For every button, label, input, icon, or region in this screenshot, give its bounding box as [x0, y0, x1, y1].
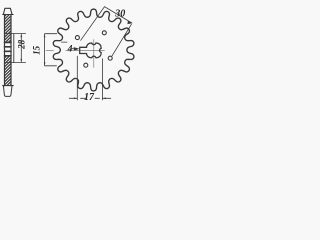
side view bore band lines — [5, 42, 12, 55]
hole top-left — [75, 36, 79, 40]
hole bottom-left — [84, 63, 88, 67]
dim 17 lines — [69, 97, 111, 99]
side view top base line — [3, 14, 14, 16]
dim 17 arrows — [74, 98, 106, 100]
dim 28 arrows — [21, 34, 23, 63]
dim 15 arrows — [44, 34, 46, 66]
centerline horizontal — [46, 49, 105, 51]
dim 15 ext lines — [45, 34, 57, 66]
side view hub collar — [13, 34, 15, 63]
side view top tooth cap — [3, 8, 12, 14]
dim 15 line — [44, 34, 46, 65]
svg-text:4: 4 — [67, 44, 73, 54]
dim 28 line — [20, 34, 22, 62]
spline bore — [80, 43, 101, 58]
leader to hole — [112, 24, 131, 56]
side view bottom base line — [3, 85, 14, 87]
dim 28 ext lines — [5, 34, 26, 63]
hole bottom-right — [108, 56, 112, 60]
leader 30 arrowhead — [127, 21, 132, 24]
side view bottom tooth cap — [3, 86, 12, 97]
svg-text:28: 28 — [17, 39, 27, 50]
svg-text:17: 17 — [84, 92, 95, 103]
svg-text:30: 30 — [114, 9, 125, 20]
gear outline — [53, 9, 134, 91]
leader 30 polyline — [81, 7, 132, 41]
side view plate outline — [5, 15, 12, 86]
svg-text:15: 15 — [32, 45, 42, 55]
hatching top region — [5, 15, 12, 86]
hole top-right — [102, 31, 106, 35]
centerline vertical — [93, 40, 95, 68]
dim 4 stub — [62, 41, 68, 43]
dim 17 ext lines — [77, 56, 102, 100]
dim 4 arrow — [74, 47, 80, 51]
